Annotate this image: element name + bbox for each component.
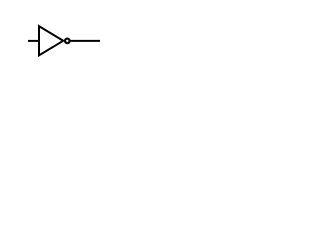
wire output net <box>71 40 101 42</box>
inverter U1 triangle <box>39 26 63 55</box>
inversion bubble <box>65 39 70 44</box>
wire input net <box>28 40 39 42</box>
